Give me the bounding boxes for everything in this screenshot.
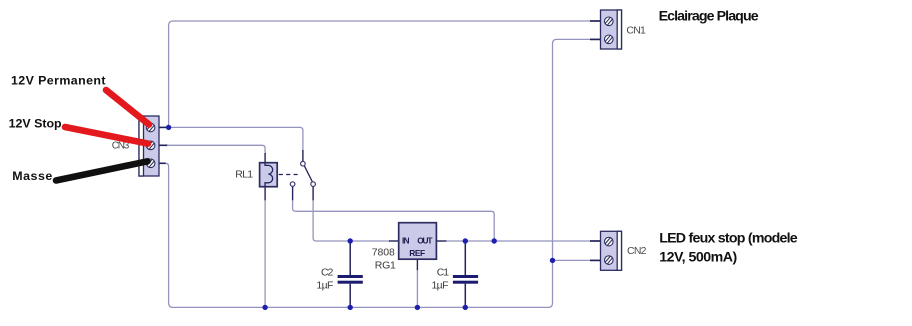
wire: switch right contact dark stub xyxy=(312,186,314,201)
svg-text:12V Permanent: 12V Permanent xyxy=(11,73,106,87)
svg-text:1µF: 1µF xyxy=(316,279,333,291)
svg-text:RG1: RG1 xyxy=(375,259,396,271)
svg-text:CN2: CN2 xyxy=(627,245,647,257)
wire: switch left contact dark stub xyxy=(292,186,294,201)
junction dot: C1 top xyxy=(463,238,468,243)
wire: REF to bottom rail xyxy=(416,270,418,307)
wire: CN2 junction to CN2 pin2 xyxy=(553,259,591,261)
annotation lead: Masse (black) xyxy=(56,161,148,180)
wire: switch left contact to regulator output node xyxy=(293,200,495,240)
svg-text:C1: C1 xyxy=(437,267,449,279)
wire: CN1 pin1 stub xyxy=(590,20,601,22)
regulator U1 7808 RG1 xyxy=(399,223,437,260)
annotation lead: 12V Stop (red) xyxy=(65,127,148,144)
svg-text:12V Stop: 12V Stop xyxy=(9,116,62,130)
svg-text:Masse: Masse xyxy=(12,169,52,183)
svg-text:LED feux stop (modele: LED feux stop (modele xyxy=(659,230,798,246)
wire: relay coil bottom dark stub xyxy=(264,186,266,201)
svg-text:7808: 7808 xyxy=(372,247,395,259)
wire: regulator REF dark stub xyxy=(416,259,418,271)
relay RL1 coil xyxy=(260,163,278,187)
svg-text:IN: IN xyxy=(402,236,410,246)
wire: dark stub into switch common xyxy=(302,150,304,161)
connector CN2 xyxy=(601,231,622,270)
capacitor C2 xyxy=(338,243,363,306)
svg-text:C2: C2 xyxy=(321,267,333,279)
wire: CN3 pin3 stub xyxy=(159,162,166,164)
wire: CN2 pin1 dark stub xyxy=(590,240,601,242)
capacitor C1 xyxy=(453,243,478,306)
junction dot: 12V permanent node xyxy=(166,125,171,130)
wire: dark stub into relay coil top xyxy=(264,153,266,163)
svg-text:OUT: OUT xyxy=(417,236,433,246)
svg-text:12V, 500mA): 12V, 500mA) xyxy=(659,250,737,266)
svg-text:CN1: CN1 xyxy=(626,25,646,37)
wire: CN1 pin2 stub xyxy=(590,38,601,40)
svg-text:RL1: RL1 xyxy=(235,169,253,181)
label 7808 RG1 xyxy=(372,247,396,272)
wire: CN3 pin1 stub xyxy=(159,126,167,128)
wire: CN3 pin2 stub xyxy=(159,144,168,146)
junction dot: output node to switch xyxy=(492,238,497,243)
wire: switch right contact down to regulator input rail xyxy=(313,200,390,241)
wire: output rail to CN2 pin1 xyxy=(446,240,591,242)
wire: 12V permanent node to switch common xyxy=(170,127,303,151)
svg-text:Eclairage Plaque: Eclairage Plaque xyxy=(659,8,759,24)
wire: CN2 pin2 dark stub xyxy=(590,259,601,261)
wire: 12V stop to relay coil top xyxy=(167,145,265,154)
wire: top rail from left vertical to CN1 pin1 xyxy=(169,21,590,125)
wire: regulator OUT stub xyxy=(436,240,447,242)
connector CN1 xyxy=(601,10,622,49)
relay RL1 switch xyxy=(279,161,316,186)
junction dot: REF bottom xyxy=(415,305,420,310)
label C1 value xyxy=(432,267,450,292)
junction dot: C2 bottom xyxy=(348,305,353,310)
wire: right vertical from CN2 junction up to CN1 pin2 xyxy=(553,39,592,260)
label C2 value xyxy=(316,267,333,292)
junction dot: C1 bottom xyxy=(463,305,468,310)
junction dot: CN2 pin2 node xyxy=(550,258,555,263)
svg-text:1µF: 1µF xyxy=(432,279,449,291)
svg-text:REF: REF xyxy=(409,248,425,258)
connector CN3 xyxy=(139,116,159,176)
wire: dark stub into regulator IN xyxy=(389,240,399,242)
annotation lead: 12V Permanent (red) xyxy=(106,90,149,125)
junction dot: relay bottom on ground rail xyxy=(262,305,267,310)
wire: ground run - pin3 down, bottom rail, up right side to CN2 junction xyxy=(166,163,553,307)
junction dot: C2 top xyxy=(348,238,353,243)
wire: relay coil bottom to bottom rail xyxy=(264,200,266,307)
